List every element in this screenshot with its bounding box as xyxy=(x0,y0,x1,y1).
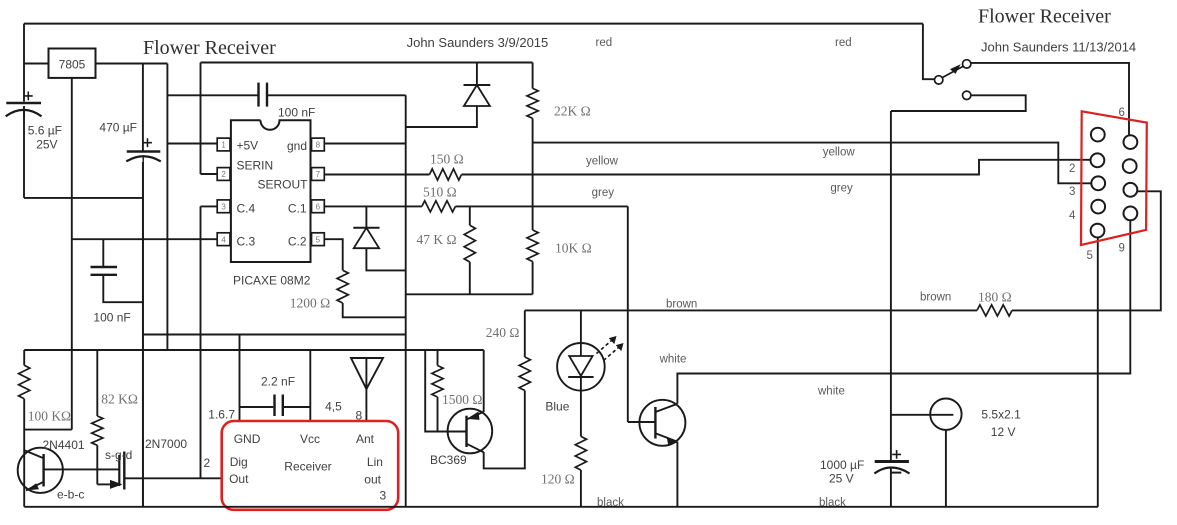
wire 12V vertical lower xyxy=(890,467,892,507)
svg-text:John Saunders 3/9/2015: John Saunders 3/9/2015 xyxy=(407,35,549,50)
capacitor 5.6uF plus sign xyxy=(24,92,33,101)
svg-text:100 nF: 100 nF xyxy=(278,106,315,120)
wire pin1 connection xyxy=(167,143,217,145)
wire gnd pin8 xyxy=(324,143,405,145)
svg-text:Lin: Lin xyxy=(367,455,383,469)
wire +5V branch to pin1 xyxy=(166,64,168,350)
wire DB9 pin5 down xyxy=(1097,237,1099,506)
wire 1.6.7 node xyxy=(240,406,274,408)
svg-text:Dig: Dig xyxy=(230,455,248,469)
wire switch to pin6 xyxy=(971,63,1129,135)
svg-text:150 Ω: 150 Ω xyxy=(430,152,464,167)
svg-text:2N4401: 2N4401 xyxy=(43,438,85,452)
svg-text:1200 Ω: 1200 Ω xyxy=(290,296,330,311)
wire bus A xyxy=(143,334,406,336)
wire 82K top lead xyxy=(96,350,98,416)
svg-text:4,5: 4,5 xyxy=(325,400,342,414)
wire grey xyxy=(462,160,1091,175)
svg-text:10K Ω: 10K Ω xyxy=(555,241,592,256)
voltage regulator U2 7805 xyxy=(49,49,96,78)
capacitor C4 100nF xyxy=(91,266,118,268)
power jack J2 12V xyxy=(930,399,961,430)
wire bus B xyxy=(24,349,484,351)
svg-text:5: 5 xyxy=(316,235,321,244)
transistor Q3 base bar xyxy=(465,416,467,447)
svg-text:6: 6 xyxy=(1119,107,1125,119)
pin 6 box xyxy=(312,200,325,213)
svg-text:e-b-c: e-b-c xyxy=(57,488,84,502)
wire 7805 ground lead xyxy=(71,78,73,430)
wire 100nF2 bottom lead xyxy=(103,276,143,302)
transistor Q4 collector xyxy=(655,404,677,412)
resistor 82K xyxy=(92,416,103,445)
switch top contact xyxy=(963,60,971,68)
svg-text:brown: brown xyxy=(920,292,951,304)
wire Q4 emitter down xyxy=(676,442,678,507)
svg-text:Blue: Blue xyxy=(545,400,569,414)
wire white xyxy=(677,220,1130,403)
wire left input drop xyxy=(23,24,25,102)
wire C.1 to 510R xyxy=(324,205,422,207)
resistor 22K xyxy=(527,88,538,118)
svg-text:black: black xyxy=(819,497,846,509)
transistor Q2 channel bar xyxy=(123,452,125,490)
svg-text:2: 2 xyxy=(221,170,226,179)
pin 2 box xyxy=(217,168,230,181)
transistor Q1 2N4401 circle xyxy=(18,448,63,493)
transistor Q4 base bar xyxy=(654,407,656,439)
wire 470uF bottom / ground vertical xyxy=(142,157,144,507)
svg-text:John Saunders 11/13/2014: John Saunders 11/13/2014 xyxy=(981,40,1136,55)
wire 1500R top lead xyxy=(437,350,439,366)
wire 47K top lead xyxy=(469,206,471,225)
svg-text:C.1: C.1 xyxy=(288,202,307,216)
wire Q3 emitter up xyxy=(483,350,485,412)
wire serin rail vertical xyxy=(200,63,202,175)
svg-text:1: 1 xyxy=(221,141,226,150)
svg-text:240 Ω: 240 Ω xyxy=(486,325,520,340)
svg-text:C.2: C.2 xyxy=(288,235,307,249)
wire 470uF top lead / +5V node vertical xyxy=(142,64,144,152)
svg-text:SERIN: SERIN xyxy=(237,159,274,173)
svg-text:red: red xyxy=(596,37,613,49)
svg-text:+5V: +5V xyxy=(237,139,259,153)
wire 7805 output xyxy=(96,63,168,65)
wire 82K bottom lead xyxy=(96,445,98,484)
svg-text:s-g-d: s-g-d xyxy=(105,448,132,462)
capacitor C5 2.2nF xyxy=(273,395,275,417)
capacitor C6 1000uF xyxy=(875,460,909,463)
svg-text:5.5x2.1: 5.5x2.1 xyxy=(981,408,1021,422)
switch bottom contact xyxy=(963,91,971,99)
svg-text:Flower Receiver: Flower Receiver xyxy=(978,6,1111,28)
wire 7805 input xyxy=(24,63,49,65)
svg-text:4: 4 xyxy=(1069,210,1076,222)
wire C.1 line right xyxy=(455,205,627,207)
capacitor 470uF plus sign xyxy=(143,138,152,147)
resistor 120R xyxy=(575,436,586,470)
resistor 1200R xyxy=(337,270,348,303)
svg-text:510 Ω: 510 Ω xyxy=(423,185,457,200)
LED D3 arrows xyxy=(597,341,612,354)
module U3 receiver box xyxy=(222,421,399,510)
pin 4 box xyxy=(217,233,230,246)
wire 22K top lead xyxy=(532,63,534,89)
wire Q2 drain to receiver xyxy=(124,477,221,479)
svg-text:100 KΩ: 100 KΩ xyxy=(28,409,71,424)
wire C.4 vertical to receiver xyxy=(200,206,202,478)
resistor 10K xyxy=(527,230,538,262)
resistor 510R xyxy=(422,201,456,212)
wire diode D2 top lead xyxy=(365,206,367,227)
wire Q1 base to gate xyxy=(44,468,120,470)
resistor 150R xyxy=(430,169,462,180)
svg-text:Out: Out xyxy=(229,472,249,486)
svg-text:2N7000: 2N7000 xyxy=(145,437,187,451)
svg-text:white: white xyxy=(659,354,687,366)
wire antenna to Ant pin xyxy=(365,389,367,421)
svg-text:Receiver: Receiver xyxy=(284,460,331,474)
resistor 47K xyxy=(464,225,475,262)
wire receiver GND vertical xyxy=(239,335,241,422)
wire bus B corner to BC369 base xyxy=(425,350,466,432)
resistor 1500R xyxy=(432,366,443,398)
capacitor C3 100nF xyxy=(257,83,259,107)
svg-text:2: 2 xyxy=(204,456,211,470)
diode D1 xyxy=(464,84,491,86)
wire top +5V rail xyxy=(201,62,533,64)
svg-text:47 K Ω: 47 K Ω xyxy=(417,232,457,247)
svg-text:100 nF: 100 nF xyxy=(93,311,130,325)
svg-text:3: 3 xyxy=(1069,186,1075,198)
pin 5 box xyxy=(312,233,325,246)
wire pin3 C.4 connection xyxy=(201,205,218,207)
wire SEROUT to 150R xyxy=(324,174,429,176)
svg-text:6: 6 xyxy=(316,202,321,211)
svg-text:grey: grey xyxy=(592,187,615,199)
svg-text:Ant: Ant xyxy=(356,432,375,446)
svg-text:1500 Ω: 1500 Ω xyxy=(442,392,482,407)
wire diode D1 bottom lead xyxy=(406,106,477,127)
svg-text:25 V: 25 V xyxy=(829,472,854,486)
svg-text:GND: GND xyxy=(234,432,261,446)
wire diode D2 bottom lead xyxy=(366,248,405,270)
wire 100K leads xyxy=(23,350,25,365)
wire jack bottom xyxy=(945,430,947,507)
wire pin5 C.2 connection xyxy=(324,239,342,270)
antenna xyxy=(351,358,383,389)
transistor Q1 base bar xyxy=(42,454,44,487)
LED D3 symbol xyxy=(580,343,582,356)
svg-text:PICAXE 08M2: PICAXE 08M2 xyxy=(233,274,311,288)
LED D3 circle xyxy=(557,343,605,391)
wire brown xyxy=(525,309,977,311)
resistor 100K xyxy=(19,365,30,398)
connector J1 DB9 shell xyxy=(1081,111,1147,245)
transistor Q4 emitter xyxy=(655,433,677,442)
pin 8 box xyxy=(312,138,325,151)
wire 100nF2 top lead xyxy=(102,239,104,266)
capacitor 1000uF plus sign xyxy=(892,450,901,459)
wire diode D1 top lead xyxy=(476,63,478,86)
wire gnd-to-base link xyxy=(24,429,72,431)
svg-text:9: 9 xyxy=(1119,243,1125,255)
transistor Q4 circle xyxy=(639,400,685,446)
wire pin2 connection xyxy=(201,173,218,175)
svg-text:5: 5 xyxy=(1087,250,1093,262)
svg-text:gnd: gnd xyxy=(287,139,307,153)
svg-text:7805: 7805 xyxy=(59,58,86,72)
wire receiver Vcc vertical xyxy=(309,350,311,421)
resistor 240R xyxy=(519,357,530,391)
transistor Q1 collector xyxy=(24,450,43,458)
svg-text:SEROUT: SEROUT xyxy=(257,178,308,192)
wire red supply rail xyxy=(24,23,923,25)
wire jack feed xyxy=(891,414,954,416)
svg-text:Flower Receiver: Flower Receiver xyxy=(143,37,276,59)
svg-text:C.3: C.3 xyxy=(237,235,256,249)
svg-text:yellow: yellow xyxy=(586,156,619,168)
svg-text:4: 4 xyxy=(221,235,226,244)
wire ground bus left xyxy=(24,197,143,199)
svg-text:470 µF: 470 µF xyxy=(99,121,137,135)
wire 240R top lead xyxy=(524,310,526,357)
svg-text:yellow: yellow xyxy=(823,147,856,159)
pin 1 box xyxy=(217,138,230,151)
DB9 right pin circles xyxy=(1124,135,1138,149)
svg-text:2: 2 xyxy=(1069,163,1075,175)
wire 47K/10K bottom bus xyxy=(406,293,533,295)
svg-text:2.2 nF: 2.2 nF xyxy=(261,375,295,389)
svg-text:82 KΩ: 82 KΩ xyxy=(101,392,138,407)
svg-text:25V: 25V xyxy=(36,138,57,152)
DB9 left pin circles xyxy=(1091,128,1105,142)
switch common contact xyxy=(935,76,943,84)
wire 100nF right xyxy=(268,94,406,96)
svg-text:12 V: 12 V xyxy=(991,425,1016,439)
wire LED to 120R xyxy=(580,391,582,437)
wire 1500R bottom lead xyxy=(437,397,439,432)
svg-text:BC369: BC369 xyxy=(430,453,467,467)
wire LED top lead xyxy=(580,310,582,343)
wire rail to switch xyxy=(923,24,934,80)
IC U1 PICAXE 08M2 body xyxy=(231,120,311,262)
svg-text:8: 8 xyxy=(316,141,321,150)
transistor Q2 source wire xyxy=(97,483,111,485)
capacitor 5.6uF xyxy=(6,102,41,105)
transistor Q2 2N7000 gate bar xyxy=(118,455,120,486)
transistor Q3 collector xyxy=(467,444,484,453)
wire 2.2nF to Vcc xyxy=(284,406,311,408)
svg-text:7: 7 xyxy=(316,170,321,179)
svg-text:22K Ω: 22K Ω xyxy=(554,104,591,119)
svg-text:120 Ω: 120 Ω xyxy=(541,472,575,487)
svg-text:1000 µF: 1000 µF xyxy=(820,458,864,472)
wire 12V vertical xyxy=(890,111,892,460)
transistor Q1 emitter xyxy=(26,482,44,491)
switch lever xyxy=(942,66,963,77)
svg-text:1.6.7: 1.6.7 xyxy=(208,408,235,422)
svg-text:grey: grey xyxy=(830,183,853,195)
svg-text:red: red xyxy=(835,37,852,49)
svg-text:180 Ω: 180 Ω xyxy=(978,290,1012,305)
wire main mid vertical xyxy=(405,95,407,507)
wire C.1 down to Q4 base xyxy=(627,206,629,422)
wire yellow xyxy=(533,143,1091,184)
resistor 180R xyxy=(977,305,1012,316)
wire black ground rail xyxy=(24,506,1098,508)
transistor Q3 emitter xyxy=(467,412,484,420)
svg-text:black: black xyxy=(597,497,624,509)
wire C.3 line xyxy=(72,238,217,240)
svg-text:5.6 µF: 5.6 µF xyxy=(28,124,62,138)
pin 3 box xyxy=(217,200,230,213)
capacitor 470uF xyxy=(127,150,161,153)
transistor Q3 BC369 circle xyxy=(448,409,493,454)
svg-text:C.4: C.4 xyxy=(237,202,256,216)
wire switch bottom route xyxy=(891,95,1026,111)
wire Q3 collector to 240R xyxy=(484,391,525,469)
wire 100nF left xyxy=(167,94,257,96)
svg-text:out: out xyxy=(364,473,381,487)
pin 7 box xyxy=(312,168,325,181)
diode D2 xyxy=(353,227,379,229)
wire 22K bottom vertical xyxy=(532,118,534,230)
svg-text:3: 3 xyxy=(221,202,226,211)
svg-text:Vcc: Vcc xyxy=(300,432,320,446)
wire 10K bottom lead xyxy=(532,262,534,295)
wire Q4 base xyxy=(628,421,656,423)
svg-text:brown: brown xyxy=(666,299,697,311)
svg-text:white: white xyxy=(817,386,845,398)
svg-text:3: 3 xyxy=(380,489,387,503)
wire 1200R bottom lead xyxy=(343,303,406,317)
wire 47K bottom lead xyxy=(469,262,471,294)
wire 120R bottom lead xyxy=(580,470,582,507)
